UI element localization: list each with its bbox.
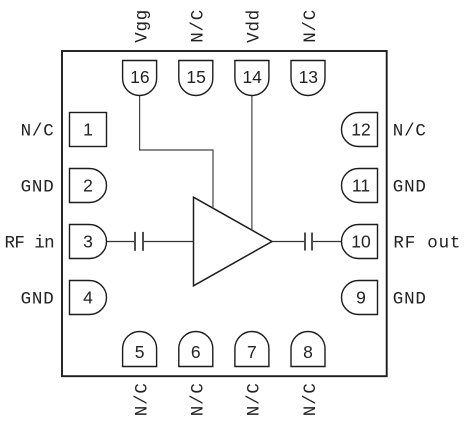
svg-text:4: 4 xyxy=(83,288,93,308)
svg-text:RF in: RF in xyxy=(4,234,54,254)
svg-text:N/C: N/C xyxy=(301,9,321,43)
wire: amplifier output to output capacitor xyxy=(272,241,304,243)
svg-text:Vgg: Vgg xyxy=(132,9,152,43)
svg-text:1: 1 xyxy=(83,120,93,140)
svg-text:11: 11 xyxy=(352,176,370,196)
svg-text:GND: GND xyxy=(21,290,55,310)
svg-text:N/C: N/C xyxy=(132,382,152,416)
svg-text:GND: GND xyxy=(21,178,55,198)
svg-text:6: 6 xyxy=(191,342,201,362)
pin 14 xyxy=(235,61,269,96)
svg-text:GND: GND xyxy=(393,178,427,198)
pin 2 xyxy=(70,169,107,203)
wire: pin 3 to input capacitor xyxy=(107,241,135,243)
pin 12 xyxy=(342,113,378,147)
pin 11 xyxy=(342,169,378,203)
capacitor input DC block xyxy=(135,232,143,251)
wire Vgg: pin 16 to amplifier bias xyxy=(140,96,213,209)
capacitor output DC block xyxy=(305,233,312,251)
svg-text:13: 13 xyxy=(299,67,318,87)
pin 16 xyxy=(123,61,157,96)
pin 3 xyxy=(70,225,107,259)
svg-text:3: 3 xyxy=(83,232,93,252)
svg-text:N/C: N/C xyxy=(301,382,321,416)
wire: output capacitor to pin 10 xyxy=(313,241,342,243)
svg-text:15: 15 xyxy=(186,67,205,87)
pin 13 xyxy=(291,61,325,96)
svg-text:8: 8 xyxy=(303,342,313,362)
svg-text:N/C: N/C xyxy=(21,122,55,142)
package outline xyxy=(62,51,387,376)
pin 15 xyxy=(179,61,213,96)
wire Vdd: pin 14 to amplifier xyxy=(251,96,253,231)
svg-text:10: 10 xyxy=(351,232,371,252)
pin 10 xyxy=(342,225,378,259)
svg-text:7: 7 xyxy=(247,342,257,362)
wire: input capacitor to amplifier input xyxy=(144,241,194,243)
svg-text:N/C: N/C xyxy=(245,382,265,416)
amplifier U1 xyxy=(194,197,273,286)
svg-text:5: 5 xyxy=(135,342,145,362)
pin 4 xyxy=(70,281,107,315)
svg-text:12: 12 xyxy=(351,120,370,140)
svg-text:N/C: N/C xyxy=(189,9,209,43)
pin 9 xyxy=(342,281,378,315)
svg-text:RF out: RF out xyxy=(393,234,461,254)
pin 7 xyxy=(235,332,269,367)
svg-text:N/C: N/C xyxy=(393,122,427,142)
svg-text:2: 2 xyxy=(83,176,93,196)
svg-text:14: 14 xyxy=(242,67,262,87)
pin 1 (square pin-1 marker) xyxy=(70,113,107,147)
svg-text:GND: GND xyxy=(393,290,427,310)
svg-text:16: 16 xyxy=(130,67,149,87)
svg-text:Vdd: Vdd xyxy=(245,9,265,43)
pin 8 xyxy=(291,332,325,367)
svg-text:9: 9 xyxy=(356,288,366,308)
pin 5 xyxy=(123,332,157,367)
svg-text:N/C: N/C xyxy=(189,382,209,416)
pin 6 xyxy=(179,332,213,367)
